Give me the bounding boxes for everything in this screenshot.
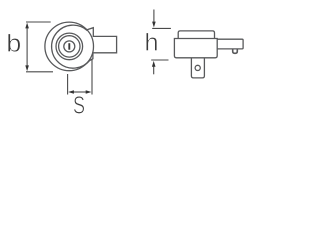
square drive (side) (191, 58, 204, 78)
b bottom extension line (26, 71, 53, 73)
S right extension line (91, 60, 93, 95)
S dimension line (73, 91, 87, 93)
label S (74, 96, 84, 113)
center slot (68, 43, 70, 50)
b top extension line (26, 21, 51, 23)
middle ring inner (59, 36, 80, 57)
detent bump (233, 49, 238, 53)
h top arrow stem (153, 10, 155, 23)
tang (side) (217, 39, 243, 49)
S left extension line (67, 74, 69, 95)
main body (174, 39, 217, 58)
h arrowheads (152, 22, 156, 67)
top cap (178, 31, 214, 39)
b arrowheads (25, 23, 29, 72)
center circle (64, 41, 75, 52)
h top extension line (152, 27, 171, 29)
pin hole (195, 65, 200, 70)
label b (8, 34, 20, 52)
h bottom extension line (151, 59, 168, 61)
b dimension line (26, 28, 28, 67)
label h (146, 33, 157, 51)
S arrowheads (68, 90, 91, 94)
boss and tang outline (87, 28, 117, 61)
middle ring outer (56, 33, 83, 60)
outer circle of head (45, 22, 94, 71)
h bottom arrow stem (153, 66, 155, 74)
chamfer circle (clipped right sector) (52, 25, 91, 68)
